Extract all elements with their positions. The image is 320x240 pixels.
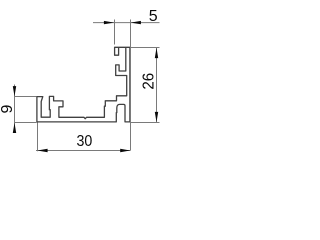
dimension 26: bottom extension line bbox=[131, 122, 160, 124]
dimension 9: bottom arrow (outside, pointing up) bbox=[13, 123, 16, 133]
dimension 5: left arrow bbox=[104, 21, 114, 24]
dimension 30: right arrow bbox=[120, 149, 130, 152]
svg-text:5: 5 bbox=[149, 8, 158, 25]
dimension 26: top arrow bbox=[155, 48, 158, 58]
dimension 26: top extension line bbox=[131, 47, 160, 49]
svg-text:26: 26 bbox=[141, 73, 158, 90]
dimension 5: left extension line bbox=[114, 20, 116, 45]
dimension 30: dimension line bbox=[36, 150, 131, 152]
dimension 9: top arrow (outside, pointing down) bbox=[13, 86, 16, 96]
dimension 5 / 30: right extension line bbox=[130, 20, 132, 151]
profile outline (aluminium section) bbox=[37, 47, 130, 122]
dimension 30: left arrow bbox=[37, 149, 47, 152]
dimension 9: bottom extension line bbox=[15, 122, 37, 124]
dimension 9: dimension line bbox=[14, 85, 16, 133]
dimension 5: right arrow bbox=[131, 21, 141, 24]
dimension 26: dimension line bbox=[156, 48, 158, 122]
dimension 30: left extension line bbox=[37, 123, 39, 152]
dimension 26: bottom arrow bbox=[155, 112, 158, 122]
dimension 5: dimension line bbox=[93, 22, 160, 24]
svg-text:9: 9 bbox=[0, 104, 16, 113]
svg-text:30: 30 bbox=[77, 133, 93, 150]
dimension 9: top extension line bbox=[15, 96, 37, 98]
